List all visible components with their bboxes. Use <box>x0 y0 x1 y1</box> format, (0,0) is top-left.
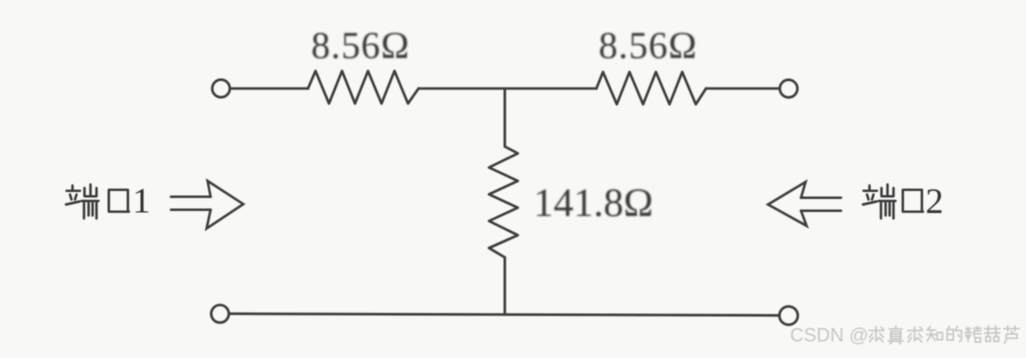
terminal port1 bottom <box>211 305 229 323</box>
port label 端口2 <box>863 185 923 219</box>
terminal port2 bottom <box>779 306 797 324</box>
resistor R3 141.8ohm shunt <box>489 147 518 258</box>
wire shunt top <box>503 89 506 147</box>
svg-text:141.8Ω: 141.8Ω <box>534 180 654 225</box>
svg-text:8.56Ω: 8.56Ω <box>599 25 698 67</box>
arrow port2 (points left) <box>768 182 841 226</box>
terminal port1 top <box>212 80 230 98</box>
arrow port1 (points right) <box>171 181 243 229</box>
svg-text:2: 2 <box>926 181 944 221</box>
port label 端口1 <box>66 185 129 219</box>
watermark hanzi 求真求知的糖葫芦 <box>869 326 1019 344</box>
svg-text:CSDN @: CSDN @ <box>790 326 868 347</box>
wire shunt bottom <box>503 257 506 314</box>
wire top-middle <box>419 87 597 90</box>
terminal port2 top <box>780 80 798 98</box>
resistor R2 8.56ohm series right <box>596 72 706 104</box>
resistor R1 8.56ohm series left <box>308 71 419 104</box>
wire top-left <box>230 87 308 90</box>
svg-text:8.56Ω: 8.56Ω <box>311 25 410 67</box>
wire bottom rail <box>229 314 779 316</box>
wire top-right <box>706 87 780 90</box>
svg-text:1: 1 <box>133 181 151 221</box>
